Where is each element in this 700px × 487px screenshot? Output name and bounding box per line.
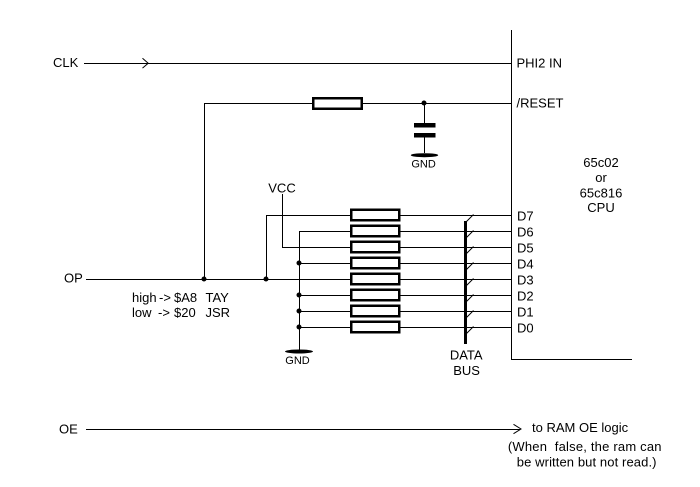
- arrowhead on OE wire: [514, 424, 522, 433]
- svg-text:VCC: VCC: [268, 181, 295, 196]
- wire D7 row right: [401, 215, 512, 217]
- CPU U1 left edge: [511, 30, 513, 359]
- capacitor C1 lower lead: [424, 138, 426, 154]
- svg-text:$A8: $A8: [174, 290, 197, 305]
- wire D0 row left: [299, 327, 350, 329]
- svg-text:TAY: TAY: [206, 290, 230, 305]
- bus DATA BUS thick line: [464, 221, 467, 344]
- svg-text:65c02: 65c02: [583, 155, 618, 170]
- CPU U1 label 65c02 or 65c816 CPU: [580, 155, 623, 215]
- svg-text:->: ->: [159, 290, 171, 305]
- svg-text:GND: GND: [411, 159, 436, 171]
- junction /RESET pull on OP: [202, 277, 207, 282]
- svg-text:D3: D3: [517, 273, 534, 288]
- wire GND vertical: [299, 231, 301, 350]
- wire OP / D3 row: [86, 279, 350, 281]
- bus slash D1: [466, 311, 474, 319]
- bus slash D3: [466, 279, 474, 287]
- svg-text:D6: D6: [517, 225, 534, 240]
- svg-text:be written but not read.): be written but not read.): [517, 455, 657, 470]
- wire OE: [86, 429, 520, 431]
- wire /RESET left segment: [204, 103, 312, 105]
- resistor RN7 (D1): [351, 306, 399, 317]
- ground symbol under resistor bus: [285, 350, 313, 354]
- svg-text:D5: D5: [517, 241, 534, 256]
- bus slash D4: [466, 263, 474, 271]
- wire D5 row right: [401, 247, 512, 249]
- svg-text:DATA: DATA: [450, 347, 483, 362]
- svg-text:to RAM OE logic: to RAM OE logic: [532, 420, 629, 435]
- svg-text:$20: $20: [174, 305, 196, 320]
- bus slash D6: [466, 231, 474, 239]
- svg-text:65c816: 65c816: [580, 186, 623, 201]
- bus slash D0: [466, 327, 474, 335]
- wire VCC to D5 resistor: [282, 247, 350, 249]
- junction D4 on GND bus: [297, 261, 302, 266]
- arrowhead on CLK wire: [143, 58, 149, 68]
- resistor RN8 (D0): [351, 322, 399, 333]
- wire D6 row right: [401, 231, 512, 233]
- capacitor C1 lead: [424, 103, 426, 123]
- resistor RN6 (D2): [351, 290, 399, 301]
- svg-text:OP: OP: [64, 271, 83, 286]
- bus slash D7: [466, 215, 474, 223]
- annotation high/low opcode: [132, 290, 230, 320]
- svg-text:CLK: CLK: [53, 55, 79, 70]
- svg-text:or: or: [595, 170, 607, 185]
- wire D7 tap down to OP: [266, 215, 268, 279]
- junction on /RESET at capacitor: [422, 101, 427, 106]
- bus slash D5: [466, 247, 474, 255]
- annotation when false note: [508, 439, 662, 470]
- wire D7 row left: [266, 215, 350, 217]
- resistor RN3 (D5): [351, 242, 399, 253]
- svg-text:GND: GND: [285, 355, 310, 367]
- svg-text:PHI2 IN: PHI2 IN: [517, 56, 563, 71]
- junction D2 on GND bus: [297, 293, 302, 298]
- svg-text:BUS: BUS: [453, 363, 480, 378]
- capacitor C1 top plate: [414, 123, 436, 128]
- wire CLK to PHI2 IN: [84, 63, 511, 65]
- wire from R1 down to OP line: [204, 103, 206, 279]
- wire D2 row left: [299, 295, 350, 297]
- junction D1 on GND bus: [297, 309, 302, 314]
- svg-text:D4: D4: [517, 257, 534, 272]
- svg-text:OE: OE: [59, 422, 78, 437]
- capacitor C1 bottom plate: [414, 133, 436, 138]
- label DATA BUS: [450, 347, 483, 378]
- resistor RN1 (D7): [351, 210, 399, 221]
- svg-text:high: high: [132, 290, 157, 305]
- junction D7 tap on OP: [264, 277, 269, 282]
- svg-text:(When false, the ram can: (When false, the ram can: [508, 439, 662, 454]
- svg-text:D0: D0: [517, 321, 534, 336]
- resistor R1 (reset pullup): [313, 98, 362, 109]
- svg-text:D7: D7: [517, 209, 534, 224]
- svg-text:CPU: CPU: [587, 200, 614, 215]
- wire /RESET right segment: [363, 103, 511, 105]
- bus slash D2: [466, 295, 474, 303]
- ground symbol under C1: [411, 153, 438, 157]
- wire D4 row left: [299, 263, 350, 265]
- wire D6 row left: [299, 231, 350, 233]
- wire VCC down: [282, 194, 284, 248]
- wire D1 row right: [401, 311, 512, 313]
- wire D3 row right: [401, 279, 512, 281]
- svg-text:->: ->: [158, 305, 170, 320]
- svg-text:D2: D2: [517, 289, 534, 304]
- resistor RN4 (D4): [351, 258, 399, 269]
- resistor RN5 (D3): [351, 274, 399, 285]
- wire D0 row right: [401, 327, 512, 329]
- junction D0 on GND bus: [297, 325, 302, 330]
- CPU U1 bottom edge: [511, 359, 632, 361]
- resistor RN2 (D6): [351, 226, 399, 237]
- svg-text:D1: D1: [517, 305, 534, 320]
- wire D4 row right: [401, 263, 512, 265]
- wire D2 row right: [401, 295, 512, 297]
- svg-text:low: low: [132, 305, 152, 320]
- wire D1 row left: [299, 311, 350, 313]
- svg-text:JSR: JSR: [206, 305, 231, 320]
- svg-text:/RESET: /RESET: [517, 96, 564, 111]
